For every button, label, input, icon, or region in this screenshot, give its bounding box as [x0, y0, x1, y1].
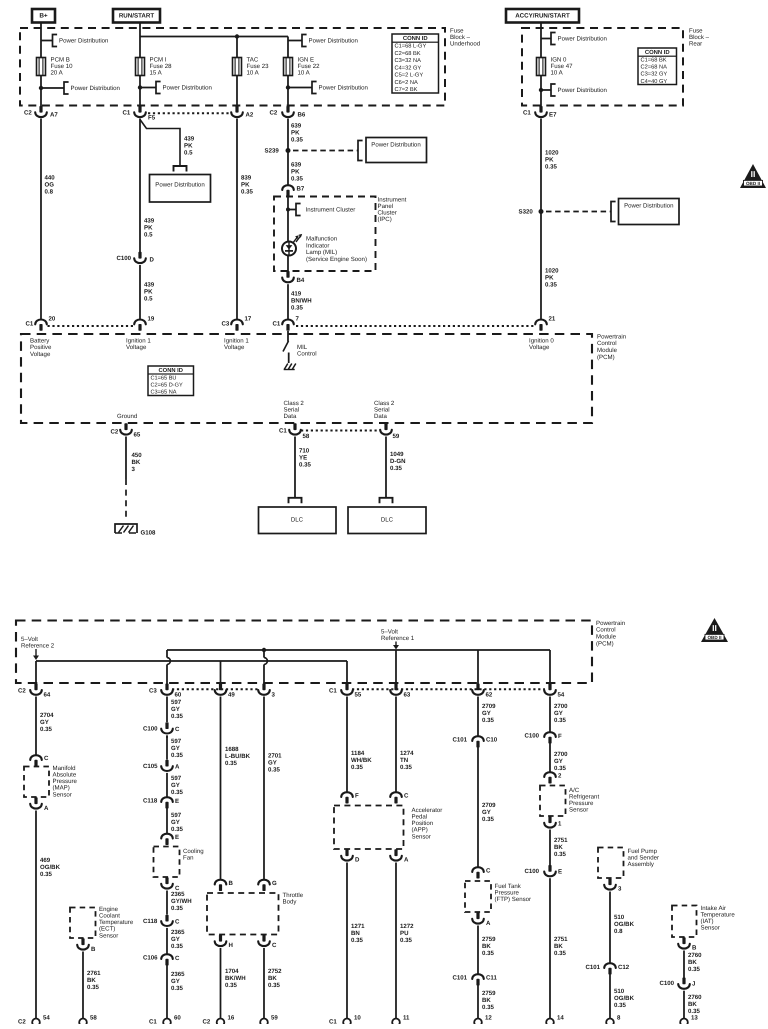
svg-text:2761: 2761 — [87, 970, 101, 977]
svg-text:0.35: 0.35 — [291, 136, 303, 143]
svg-text:GY: GY — [171, 978, 180, 985]
svg-text:C1: C1 — [279, 427, 287, 434]
svg-text:1020: 1020 — [545, 267, 559, 274]
svg-text:BK: BK — [688, 1001, 697, 1008]
svg-text:1688: 1688 — [225, 746, 239, 753]
svg-text:C: C — [175, 918, 180, 925]
svg-text:16: 16 — [228, 1014, 235, 1021]
svg-text:0.35: 0.35 — [482, 717, 494, 724]
svg-text:Power Distribution: Power Distribution — [71, 85, 120, 92]
svg-text:0.35: 0.35 — [241, 188, 253, 195]
svg-text:Sensor: Sensor — [701, 925, 720, 932]
svg-text:0.35: 0.35 — [554, 851, 566, 858]
svg-text:D-GN: D-GN — [390, 458, 406, 465]
svg-text:C12: C12 — [618, 964, 630, 971]
svg-text:2759: 2759 — [482, 990, 496, 997]
svg-text:Body: Body — [283, 898, 298, 905]
svg-text:2700: 2700 — [554, 703, 568, 710]
svg-text:C2: C2 — [24, 109, 32, 116]
svg-text:Control: Control — [297, 351, 317, 358]
svg-text:C1: C1 — [273, 320, 281, 327]
svg-text:Power Distribution: Power Distribution — [155, 181, 204, 188]
svg-text:C1: C1 — [329, 687, 337, 694]
svg-text:C: C — [272, 942, 277, 949]
svg-text:0.35: 0.35 — [268, 982, 280, 989]
svg-text:2752: 2752 — [268, 968, 282, 975]
svg-text:B: B — [229, 880, 234, 887]
svg-text:19: 19 — [148, 315, 155, 322]
svg-text:2365: 2365 — [171, 971, 185, 978]
svg-text:54: 54 — [43, 1014, 50, 1021]
svg-text:0.35: 0.35 — [390, 465, 402, 472]
svg-text:Rear: Rear — [689, 40, 702, 47]
svg-text:B6: B6 — [298, 111, 306, 118]
svg-text:C2: C2 — [203, 1018, 211, 1024]
svg-text:Sensor: Sensor — [99, 932, 118, 939]
svg-text:0.35: 0.35 — [225, 982, 237, 989]
svg-text:GY: GY — [268, 759, 277, 766]
svg-text:2709: 2709 — [482, 703, 496, 710]
svg-text:639: 639 — [291, 161, 302, 168]
svg-text:59: 59 — [393, 433, 400, 440]
svg-text:GY: GY — [171, 819, 180, 826]
svg-text:S239: S239 — [265, 147, 280, 154]
svg-text:419: 419 — [291, 290, 302, 297]
svg-text:C118: C118 — [143, 918, 158, 925]
svg-text:C106: C106 — [143, 954, 158, 961]
svg-text:0.8: 0.8 — [45, 188, 54, 195]
svg-text:Power Distribution: Power Distribution — [558, 35, 607, 42]
svg-text:2751: 2751 — [554, 936, 568, 943]
svg-text:BK: BK — [268, 975, 277, 982]
svg-text:C1: C1 — [329, 1018, 337, 1024]
svg-text:J: J — [692, 980, 695, 987]
svg-text:GY: GY — [171, 745, 180, 752]
svg-text:0.35: 0.35 — [400, 937, 412, 944]
svg-text:1704: 1704 — [225, 968, 239, 975]
svg-text:Data: Data — [284, 413, 297, 420]
svg-text:PK: PK — [241, 181, 250, 188]
svg-text:D: D — [150, 256, 155, 263]
svg-text:2704: 2704 — [40, 712, 54, 719]
svg-text:BN: BN — [351, 930, 360, 937]
svg-text:510: 510 — [614, 914, 625, 921]
svg-text:BK: BK — [87, 977, 96, 984]
svg-text:0.35: 0.35 — [171, 985, 183, 992]
svg-text:C100: C100 — [143, 725, 158, 732]
svg-text:0.5: 0.5 — [184, 149, 193, 156]
svg-text:DLC: DLC — [381, 516, 394, 523]
svg-text:Underhood: Underhood — [450, 40, 480, 47]
svg-text:GY: GY — [554, 710, 563, 717]
svg-text:710: 710 — [299, 447, 310, 454]
svg-text:C1=68 L-GY: C1=68 L-GY — [395, 44, 427, 50]
svg-text:439: 439 — [144, 281, 155, 288]
svg-text:0.35: 0.35 — [87, 984, 99, 991]
svg-text:L-BU/BK: L-BU/BK — [225, 753, 251, 760]
svg-text:0.35: 0.35 — [351, 937, 363, 944]
svg-text:Reference 1: Reference 1 — [381, 635, 415, 642]
svg-text:639: 639 — [291, 122, 302, 129]
svg-text:C10: C10 — [486, 736, 498, 743]
svg-text:GY: GY — [40, 719, 49, 726]
svg-text:S320: S320 — [519, 208, 534, 215]
svg-text:PK: PK — [144, 224, 153, 231]
svg-text:B7: B7 — [297, 185, 305, 192]
svg-text:0.35: 0.35 — [171, 826, 183, 833]
svg-text:58: 58 — [303, 433, 310, 440]
svg-text:0.35: 0.35 — [482, 1004, 494, 1011]
svg-text:Voltage: Voltage — [126, 344, 147, 351]
svg-text:GY: GY — [171, 782, 180, 789]
svg-text:0.35: 0.35 — [291, 175, 303, 182]
svg-text:2700: 2700 — [554, 751, 568, 758]
svg-text:A: A — [404, 856, 409, 863]
svg-text:(PCM): (PCM) — [597, 354, 615, 361]
svg-text:C6=2 NA: C6=2 NA — [395, 80, 418, 86]
svg-text:D: D — [355, 856, 360, 863]
svg-text:C1=68 BK: C1=68 BK — [641, 58, 667, 64]
svg-text:C1: C1 — [123, 109, 131, 116]
svg-text:C100: C100 — [117, 255, 132, 262]
svg-text:C2=68 BK: C2=68 BK — [395, 51, 421, 57]
svg-text:BN/WH: BN/WH — [291, 297, 312, 304]
svg-text:510: 510 — [614, 988, 625, 995]
svg-text:0.35: 0.35 — [40, 871, 52, 878]
svg-text:597: 597 — [171, 812, 182, 819]
svg-text:C101: C101 — [586, 964, 601, 971]
svg-text:63: 63 — [404, 691, 411, 698]
svg-text:1271: 1271 — [351, 923, 365, 930]
svg-text:PK: PK — [291, 168, 300, 175]
svg-text:Data: Data — [374, 413, 387, 420]
svg-text:C3: C3 — [149, 687, 157, 694]
svg-text:OG/BK: OG/BK — [614, 921, 635, 928]
svg-text:Power Distribution: Power Distribution — [59, 37, 108, 44]
svg-text:E: E — [175, 834, 179, 841]
svg-text:C: C — [486, 867, 491, 874]
svg-text:C4=32 GY: C4=32 GY — [395, 65, 422, 71]
svg-text:0.35: 0.35 — [614, 1002, 626, 1009]
svg-text:C100: C100 — [525, 868, 540, 875]
svg-text:Reference 2: Reference 2 — [21, 642, 55, 649]
svg-text:A: A — [175, 763, 180, 770]
svg-text:GY: GY — [482, 809, 491, 816]
svg-text:C2: C2 — [111, 428, 119, 435]
svg-text:G: G — [272, 880, 277, 887]
svg-text:1274: 1274 — [400, 750, 414, 757]
svg-text:C2: C2 — [18, 687, 26, 694]
svg-text:GY: GY — [482, 710, 491, 717]
svg-text:C4=40 GY: C4=40 GY — [641, 79, 668, 85]
svg-text:0.35: 0.35 — [400, 764, 412, 771]
svg-text:BK: BK — [554, 943, 563, 950]
svg-text:C1: C1 — [26, 320, 34, 327]
svg-text:60: 60 — [175, 691, 182, 698]
svg-text:F5: F5 — [148, 114, 156, 121]
svg-text:450: 450 — [132, 452, 143, 459]
svg-text:0.35: 0.35 — [351, 764, 363, 771]
svg-text:BK: BK — [482, 997, 491, 1004]
svg-text:C1: C1 — [149, 1018, 157, 1024]
svg-text:ACCY/RUN/START: ACCY/RUN/START — [515, 12, 570, 19]
svg-text:OBD II: OBD II — [707, 635, 721, 640]
svg-text:0.35: 0.35 — [482, 816, 494, 823]
svg-text:0.35: 0.35 — [171, 905, 183, 912]
svg-text:A: A — [486, 920, 491, 927]
svg-text:C101: C101 — [453, 974, 468, 981]
svg-text:OG: OG — [45, 181, 55, 188]
svg-text:C3=32 GY: C3=32 GY — [641, 72, 668, 78]
svg-text:BK: BK — [132, 459, 141, 466]
svg-text:PU: PU — [400, 930, 409, 937]
svg-text:A7: A7 — [50, 111, 58, 118]
svg-text:(FTP) Sensor: (FTP) Sensor — [495, 896, 532, 903]
svg-text:439: 439 — [144, 217, 155, 224]
svg-text:0.35: 0.35 — [171, 789, 183, 796]
svg-text:2365: 2365 — [171, 929, 185, 936]
svg-text:58: 58 — [90, 1014, 97, 1021]
svg-text:F: F — [558, 733, 562, 740]
svg-text:Instrument Cluster: Instrument Cluster — [306, 206, 356, 213]
svg-text:PK: PK — [144, 288, 153, 295]
svg-text:0.35: 0.35 — [40, 726, 52, 733]
svg-text:C100: C100 — [525, 732, 540, 739]
svg-text:H: H — [229, 942, 233, 949]
svg-text:OG/BK: OG/BK — [614, 995, 635, 1002]
svg-text:0.35: 0.35 — [225, 760, 237, 767]
svg-text:10: 10 — [354, 1014, 361, 1021]
svg-text:1049: 1049 — [390, 451, 404, 458]
svg-text:0.5: 0.5 — [144, 295, 153, 302]
svg-text:C5=2 L-GY: C5=2 L-GY — [395, 73, 424, 79]
svg-text:62: 62 — [486, 691, 493, 698]
svg-text:0.35: 0.35 — [171, 752, 183, 759]
svg-text:0.35: 0.35 — [291, 304, 303, 311]
svg-text:CONN ID: CONN ID — [645, 49, 670, 56]
svg-text:PK: PK — [184, 142, 193, 149]
svg-text:B: B — [91, 946, 96, 953]
svg-text:0.35: 0.35 — [171, 713, 183, 720]
svg-text:C100: C100 — [660, 980, 675, 987]
svg-text:2760: 2760 — [688, 994, 702, 1001]
svg-text:C11: C11 — [486, 974, 497, 981]
svg-text:C105: C105 — [143, 763, 158, 770]
svg-text:Voltage: Voltage — [30, 351, 51, 358]
svg-text:YE: YE — [299, 454, 307, 461]
svg-text:TN: TN — [400, 757, 408, 764]
svg-text:BK: BK — [688, 959, 697, 966]
svg-text:Voltage: Voltage — [529, 344, 550, 351]
svg-text:49: 49 — [228, 691, 235, 698]
svg-text:0.35: 0.35 — [554, 765, 566, 772]
svg-text:(PCM): (PCM) — [596, 640, 614, 647]
svg-text:597: 597 — [171, 699, 182, 706]
svg-text:Ground: Ground — [117, 413, 137, 420]
svg-text:64: 64 — [44, 691, 51, 698]
svg-text:A2: A2 — [246, 111, 254, 118]
svg-text:C7=2 BK: C7=2 BK — [395, 87, 418, 93]
svg-text:II: II — [751, 169, 756, 179]
svg-text:59: 59 — [271, 1014, 278, 1021]
svg-text:Power Distribution: Power Distribution — [309, 37, 358, 44]
svg-text:C2=65 D-GY: C2=65 D-GY — [151, 382, 183, 388]
svg-text:PK: PK — [291, 129, 300, 136]
svg-text:DLC: DLC — [291, 516, 304, 523]
svg-text:C2: C2 — [270, 109, 278, 116]
svg-text:20: 20 — [49, 315, 56, 322]
svg-text:17: 17 — [245, 315, 252, 322]
svg-text:C101: C101 — [453, 736, 468, 743]
svg-text:440: 440 — [45, 174, 56, 181]
svg-text:F: F — [355, 792, 359, 799]
svg-text:Sensor: Sensor — [569, 807, 588, 814]
svg-text:BK: BK — [482, 943, 491, 950]
svg-text:0.35: 0.35 — [554, 717, 566, 724]
svg-text:CONN ID: CONN ID — [403, 35, 428, 42]
svg-text:GY/WH: GY/WH — [171, 898, 192, 905]
svg-text:Power Distribution: Power Distribution — [163, 84, 212, 91]
svg-text:E: E — [175, 798, 179, 805]
svg-text:2751: 2751 — [554, 837, 568, 844]
svg-text:0.35: 0.35 — [545, 281, 557, 288]
svg-text:12: 12 — [485, 1014, 492, 1021]
svg-text:1020: 1020 — [545, 149, 559, 156]
svg-text:PK: PK — [545, 156, 554, 163]
svg-text:1272: 1272 — [400, 923, 414, 930]
svg-text:C: C — [404, 792, 409, 799]
svg-text:10 A: 10 A — [298, 70, 311, 77]
svg-text:439: 439 — [184, 135, 195, 142]
svg-text:469: 469 — [40, 857, 51, 864]
svg-text:2701: 2701 — [268, 752, 282, 759]
svg-text:0.8: 0.8 — [614, 928, 623, 935]
svg-text:(IPC): (IPC) — [378, 216, 392, 223]
svg-text:C3=32 NA: C3=32 NA — [395, 58, 422, 64]
svg-text:Voltage: Voltage — [224, 344, 245, 351]
svg-text:14: 14 — [557, 1014, 564, 1021]
svg-text:10 A: 10 A — [247, 70, 260, 77]
svg-text:1184: 1184 — [351, 750, 365, 757]
svg-text:E: E — [558, 868, 562, 875]
svg-text:OG/BK: OG/BK — [40, 864, 61, 871]
svg-text:0.35: 0.35 — [688, 966, 700, 973]
svg-text:C3=65 NA: C3=65 NA — [151, 390, 177, 396]
svg-text:C1=65 BU: C1=65 BU — [151, 375, 177, 381]
svg-text:0.35: 0.35 — [482, 950, 494, 957]
svg-text:C1: C1 — [523, 109, 531, 116]
svg-text:RUN/START: RUN/START — [119, 12, 155, 19]
svg-text:Fan: Fan — [183, 854, 194, 861]
svg-text:55: 55 — [355, 691, 362, 698]
svg-text:C3: C3 — [222, 320, 230, 327]
svg-text:Power Distribution: Power Distribution — [624, 202, 673, 209]
svg-text:10 A: 10 A — [551, 70, 564, 77]
svg-text:CONN ID: CONN ID — [159, 367, 183, 374]
svg-text:(Service Engine Soon): (Service Engine Soon) — [306, 256, 367, 263]
svg-text:20 A: 20 A — [51, 70, 64, 77]
svg-text:54: 54 — [558, 691, 565, 698]
svg-text:2709: 2709 — [482, 802, 496, 809]
svg-text:60: 60 — [174, 1014, 181, 1021]
svg-text:C118: C118 — [143, 797, 158, 804]
svg-text:597: 597 — [171, 775, 182, 782]
svg-text:PK: PK — [545, 274, 554, 281]
svg-text:Sensor: Sensor — [53, 791, 72, 798]
svg-text:0.35: 0.35 — [299, 461, 311, 468]
svg-text:C: C — [44, 755, 49, 762]
svg-text:WH/BK: WH/BK — [351, 757, 372, 764]
svg-text:Power Distribution: Power Distribution — [319, 84, 368, 91]
svg-text:597: 597 — [171, 738, 182, 745]
svg-text:65: 65 — [134, 431, 141, 438]
svg-text:2760: 2760 — [688, 952, 702, 959]
svg-text:2365: 2365 — [171, 891, 185, 898]
svg-text:OBD II: OBD II — [746, 181, 760, 186]
svg-text:GY: GY — [171, 706, 180, 713]
svg-text:GY: GY — [554, 758, 563, 765]
svg-text:Power Distribution: Power Distribution — [371, 141, 420, 148]
svg-text:2759: 2759 — [482, 936, 496, 943]
svg-text:BK/WH: BK/WH — [225, 975, 246, 982]
svg-text:0.35: 0.35 — [268, 766, 280, 773]
svg-text:B+: B+ — [39, 13, 48, 20]
svg-text:0.35: 0.35 — [171, 943, 183, 950]
svg-text:E7: E7 — [549, 111, 557, 118]
svg-text:11: 11 — [403, 1014, 410, 1021]
svg-text:C2: C2 — [18, 1018, 26, 1024]
svg-text:GY: GY — [171, 936, 180, 943]
svg-text:15 A: 15 A — [150, 70, 163, 77]
svg-text:0.35: 0.35 — [554, 950, 566, 957]
svg-text:Power Distribution: Power Distribution — [558, 87, 607, 94]
svg-text:B4: B4 — [297, 277, 305, 284]
svg-text:B: B — [692, 944, 697, 951]
svg-text:C: C — [175, 955, 180, 962]
svg-text:839: 839 — [241, 174, 252, 181]
svg-text:C2=68 NA: C2=68 NA — [641, 65, 668, 71]
svg-text:13: 13 — [691, 1014, 698, 1021]
svg-text:G108: G108 — [141, 529, 157, 536]
svg-text:II: II — [712, 623, 717, 633]
svg-text:A: A — [44, 805, 49, 812]
svg-text:C: C — [175, 726, 180, 733]
svg-text:21: 21 — [549, 315, 556, 322]
svg-text:Assembly: Assembly — [628, 861, 655, 868]
svg-text:BK: BK — [554, 844, 563, 851]
svg-text:Sensor: Sensor — [412, 833, 431, 840]
svg-text:0.35: 0.35 — [545, 163, 557, 170]
svg-text:0.5: 0.5 — [144, 231, 153, 238]
